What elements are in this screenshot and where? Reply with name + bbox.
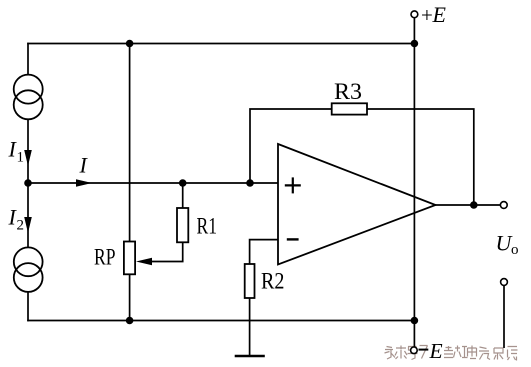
- current source I2: [14, 247, 43, 292]
- svg-text:1: 1: [17, 150, 25, 166]
- wire: R3 right leg down to output node: [367, 109, 474, 205]
- wire: R2 bottom to ground: [249, 298, 251, 356]
- wire: RP body to bottom rail: [129, 274, 131, 320]
- wire: current source I2 to bottom rail: [27, 292, 29, 322]
- svg-text:2: 2: [17, 218, 25, 234]
- svg-text:R3: R3: [334, 79, 362, 104]
- svg-text:R1: R1: [197, 214, 218, 239]
- node: bottom rail / supply rail junction: [411, 317, 419, 325]
- wire: +E terminal lead to top rail: [413, 18, 415, 44]
- label -E: [419, 349, 429, 351]
- wire: op-amp output: [436, 204, 501, 206]
- arrow: I2 current direction: [24, 217, 32, 233]
- svg-text:R2: R2: [261, 269, 285, 294]
- svg-text:+: +: [421, 3, 433, 27]
- resistor R3: [332, 103, 367, 114]
- terminal -E: [411, 347, 418, 354]
- potentiometer RP body: [124, 242, 135, 275]
- wire: current source I1 to node A: [27, 119, 29, 183]
- svg-text:E: E: [432, 2, 447, 27]
- resistor R2: [245, 264, 255, 298]
- node A: summing junction: [24, 179, 32, 187]
- wire: left drop from top rail to current source I1: [27, 43, 29, 75]
- wire: R1 bottom to RP wiper: [140, 242, 183, 261]
- current source I1: [14, 75, 43, 120]
- node: output / R3 feedback junction: [470, 201, 478, 209]
- svg-text:E: E: [429, 339, 443, 363]
- ground: [235, 355, 265, 357]
- node: top rail / supply rail junction: [411, 40, 419, 48]
- op-amp U1: [278, 144, 436, 265]
- op-amp - input symbol: [287, 238, 299, 240]
- terminal: output Uo: [500, 202, 507, 209]
- svg-text:RP: RP: [94, 245, 116, 270]
- arrow: RP wiper: [136, 258, 152, 266]
- node: bottom rail / RP branch junction: [126, 317, 134, 325]
- arrow: I current direction: [76, 179, 92, 187]
- wire: output reference lead: [503, 286, 505, 349]
- arrow: I1 current direction: [24, 150, 32, 166]
- wire: main horizontal from node A to op-amp noninverting input: [28, 182, 278, 184]
- watermark: [385, 346, 518, 361]
- wire: node A down to current source I2: [27, 183, 29, 248]
- wire: inverting input to R2: [250, 240, 278, 264]
- terminal: output reference: [501, 279, 508, 286]
- node: top rail / RP branch junction: [126, 40, 134, 48]
- svg-text:o: o: [511, 242, 519, 258]
- node: R1 top junction on main wire: [179, 179, 187, 187]
- wire: R3 left vertical leg: [250, 109, 332, 183]
- terminal +E: [411, 11, 418, 18]
- op-amp + input symbol: [285, 177, 301, 193]
- wire: junction down to R1: [182, 183, 184, 208]
- wire: supply rail vertical: [413, 44, 415, 321]
- node: noninverting input / R3 feedback junction: [246, 179, 254, 187]
- resistor R1: [177, 208, 188, 242]
- wire: bottom rail junction to -E terminal: [413, 321, 415, 348]
- wire: RP branch from top rail down to RP body: [129, 44, 131, 242]
- wire: bottom rail: [27, 320, 414, 322]
- wire: top +E rail: [27, 43, 415, 45]
